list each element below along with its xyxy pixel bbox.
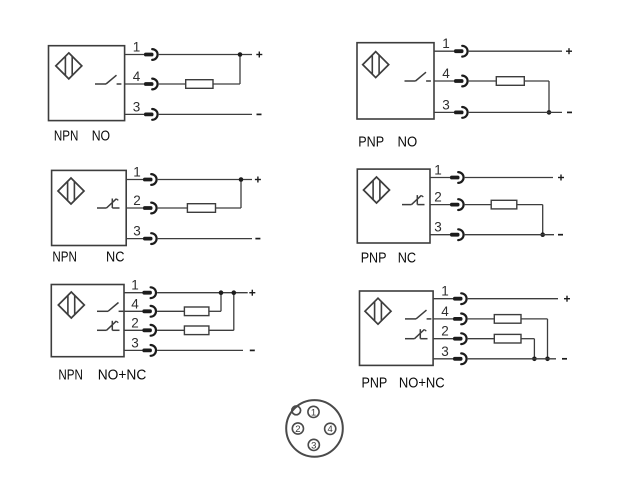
svg-text:2: 2 (441, 324, 449, 339)
load resistor D3 (187, 204, 215, 213)
svg-text:3: 3 (434, 220, 442, 235)
NC switch contact D6 NC (405, 329, 428, 339)
junction dot D1 (238, 52, 243, 57)
wire D3 line2 to resistor (158, 207, 188, 209)
junction dot D6 outer (545, 357, 550, 362)
connector plug D1 pin3 (144, 109, 158, 120)
wire D2 pin4 stub (434, 80, 455, 82)
svg-text:3: 3 (133, 99, 141, 114)
wire D3 line3 (158, 238, 252, 240)
wire D1 resistor to vertical (213, 83, 240, 85)
- terminal D4 (558, 234, 563, 236)
wire D4 resistor to vertical (517, 204, 543, 206)
wire D1 line1 (159, 54, 252, 56)
wire D3 pin3 stub (126, 238, 144, 240)
junction dot D4 (540, 232, 545, 237)
sensor diamond symbol D4 (364, 177, 390, 203)
+ terminal D2 (566, 48, 572, 54)
wire D5 res4 to vertical (209, 310, 221, 312)
svg-text:2: 2 (295, 424, 300, 435)
NO switch contact D6 NO (405, 310, 431, 319)
connector plug D6 pin3 (453, 353, 467, 364)
svg-text:1: 1 (434, 163, 442, 178)
connector plug D2 pin3 (454, 107, 468, 118)
svg-text:2: 2 (131, 315, 139, 330)
wire D3 line1 (158, 179, 252, 181)
wire D6 line3 (468, 358, 556, 360)
+ terminal D1 (256, 52, 262, 58)
svg-text:1: 1 (311, 407, 316, 418)
sensor body box D6 (360, 291, 434, 365)
+ terminal D4 (558, 175, 564, 181)
connector pin 3 circle (308, 439, 319, 451)
wire D4 pin1 stub (430, 177, 451, 179)
sensor body box D5 (51, 285, 124, 357)
wire D1 vertical up (239, 55, 241, 85)
svg-text:2: 2 (434, 190, 442, 205)
NO switch contact D5 NO (97, 303, 123, 312)
sensor diamond symbol D5 (58, 292, 84, 318)
wire D5 line4 to resistor (157, 310, 184, 312)
NC switch contact D5 NC (97, 321, 120, 331)
wire D5 pin3 stub (124, 349, 143, 351)
NO switch contact D1 NO (95, 75, 121, 84)
- terminal D6 (562, 358, 567, 360)
wire D3 pin2 stub (126, 207, 144, 209)
load resistor D5 R2 (184, 326, 209, 335)
NC switch contact D3 NC (97, 199, 120, 209)
wire D6 res2 to vertical (521, 338, 534, 340)
wire D2 pin3 stub (434, 111, 455, 113)
sensor diamond symbol D2 (363, 52, 389, 78)
wire D1 pin3 stub (125, 113, 145, 115)
svg-text:4: 4 (328, 424, 333, 435)
svg-text:NC: NC (398, 250, 417, 267)
connector plug D5 pin1 (142, 287, 156, 298)
connector plug D5 pin3 (142, 345, 156, 356)
svg-text:1: 1 (131, 278, 139, 293)
- terminal D1 (257, 113, 262, 115)
wire D6 line2 to resistor (468, 338, 495, 340)
load resistor D4 (491, 200, 517, 209)
- terminal D3 (255, 238, 260, 240)
connector plug D3 pin3 (143, 233, 157, 244)
wire D6 pin4 stub (433, 318, 454, 320)
+ terminal D3 (255, 177, 261, 183)
wire D6 pin2 stub (433, 338, 454, 340)
wire D5 pin1 stub (124, 292, 143, 294)
svg-text:NO+NC: NO+NC (98, 367, 147, 384)
wire D5 line2 to resistor (157, 329, 184, 331)
wire D6 pin3 stub (433, 358, 454, 360)
svg-text:PNP: PNP (362, 375, 388, 392)
load resistor D1 (186, 80, 213, 89)
wire D6 res4 to vertical (521, 318, 548, 320)
wire D6 line1 (468, 298, 558, 300)
load resistor D6 R4 (494, 315, 521, 324)
svg-text:3: 3 (133, 224, 141, 239)
svg-text:NO: NO (398, 134, 418, 151)
svg-text:3: 3 (131, 335, 139, 350)
load resistor D5 R4 (184, 307, 209, 316)
wire D5 pin2 stub (124, 329, 143, 331)
svg-text:NO: NO (92, 128, 110, 145)
svg-text:PNP: PNP (358, 134, 384, 151)
svg-text:2: 2 (133, 193, 141, 208)
svg-text:NC: NC (106, 249, 125, 266)
wire D5 line3 (157, 349, 243, 351)
connector pin 4 circle (325, 423, 336, 435)
wire D4 line1 (465, 177, 553, 179)
sensor diamond symbol D3 (58, 178, 84, 204)
connector plug D3 pin1 (143, 174, 157, 185)
connector plug D4 pin2 (450, 199, 464, 210)
wire D6 vertical down inner (533, 339, 535, 359)
wire D2 vertical down (548, 81, 550, 112)
wire D3 resistor to vertical (216, 207, 242, 209)
connector plug D6 pin4 (453, 314, 467, 325)
svg-text:3: 3 (441, 344, 449, 359)
svg-text:4: 4 (131, 296, 139, 311)
wire D4 line3 (465, 234, 554, 236)
svg-text:3: 3 (311, 440, 316, 451)
- terminal D2 (567, 111, 572, 113)
wire D5 vertical up 2 (233, 293, 235, 331)
connector plug D3 pin2 (143, 203, 157, 214)
svg-text:1: 1 (442, 36, 450, 51)
wire D6 line4 to resistor (468, 318, 495, 320)
wire D2 line4 to resistor (469, 80, 497, 82)
wire D1 line3 (159, 113, 252, 115)
connector plug D6 pin2 (453, 333, 467, 344)
wire D1 line4 to resistor (159, 83, 186, 85)
svg-text:1: 1 (133, 165, 141, 180)
wire D5 vertical up 1 (220, 293, 222, 312)
connector pin 1 circle (308, 406, 319, 418)
junction dot D2 (547, 110, 552, 115)
wire D3 vertical up (240, 180, 242, 209)
wire D4 pin3 stub (430, 234, 451, 236)
sensor body box D2 (357, 43, 434, 119)
connector plug D6 pin1 (453, 293, 467, 304)
junction dot D5 2 (232, 290, 237, 295)
svg-text:NPN: NPN (54, 128, 79, 145)
wire D5 res2 to vertical (209, 329, 234, 331)
connector plug D4 pin1 (450, 172, 464, 183)
wire D4 pin2 stub (430, 204, 451, 206)
wire D2 resistor to vertical (524, 80, 549, 82)
junction dot D6 inner (532, 357, 537, 362)
svg-text:1: 1 (133, 40, 141, 55)
wire D1 pin1 stub (125, 54, 145, 56)
sensor body box D4 (357, 169, 430, 243)
connector plug D2 pin4 (454, 76, 468, 87)
svg-text:PNP: PNP (361, 250, 387, 267)
- terminal D5 (250, 349, 255, 351)
wire D6 pin1 stub (433, 298, 454, 300)
sensor diamond symbol D6 (365, 298, 391, 324)
junction dot D5 1 (219, 290, 224, 295)
connector plug D4 pin3 (450, 229, 464, 240)
keying notch circle (292, 406, 301, 415)
wire D2 line1 (469, 50, 562, 52)
connector plug D5 pin2 (142, 325, 156, 336)
wire D4 line2 to resistor (465, 204, 492, 206)
wire D2 pin1 stub (434, 50, 455, 52)
connector plug D2 pin1 (454, 46, 468, 57)
svg-text:NPN: NPN (58, 367, 83, 384)
svg-text:4: 4 (441, 304, 449, 319)
NC switch contact D4 NC (402, 195, 425, 205)
junction dot D3 (239, 177, 244, 182)
NO switch contact D2 NO (405, 72, 431, 81)
+ terminal D6 (564, 296, 570, 302)
svg-text:3: 3 (442, 97, 450, 112)
wire D1 pin4 stub (125, 83, 145, 85)
connector pin 2 circle (292, 423, 303, 435)
load resistor D6 R2 (494, 334, 521, 343)
connector plug D1 pin1 (144, 49, 158, 60)
wire D5 pin4 stub (124, 310, 143, 312)
wire D4 vertical down (542, 205, 544, 235)
svg-text:4: 4 (133, 69, 141, 84)
svg-text:NPN: NPN (52, 249, 77, 266)
sensor body box D3 (52, 170, 127, 245)
connector plug D1 pin4 (144, 79, 158, 90)
svg-text:1: 1 (441, 284, 449, 299)
connector outer circle (286, 400, 343, 457)
wire D3 pin1 stub (126, 179, 144, 181)
+ terminal D5 (249, 290, 255, 296)
sensor body box D1 (49, 46, 125, 121)
svg-text:4: 4 (442, 66, 450, 81)
load resistor D2 (496, 77, 524, 86)
sensor diamond symbol D1 (56, 53, 82, 79)
svg-text:NO+NC: NO+NC (399, 375, 445, 392)
wire D6 vertical down outer (547, 319, 549, 359)
wire D2 line3 (469, 111, 562, 113)
connector plug D5 pin4 (142, 306, 156, 317)
wire D5 line1 (157, 292, 248, 294)
